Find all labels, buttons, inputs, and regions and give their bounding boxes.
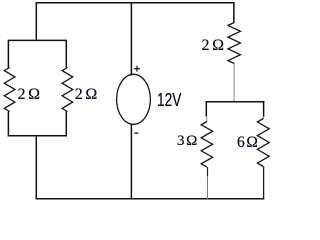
plus polarity mark [134,66,140,72]
wire 6ohm lower lead [263,167,265,200]
wire 3ohm upper thin lead [206,116,208,122]
wire second branch upper lead [65,40,67,68]
wire 3ohm branch upper lead [205,101,207,117]
value label 12V (source) [157,90,181,111]
resistor 2ohm left [4,68,15,112]
wire source branch lower [130,124,132,199]
value label 2 ohm (upper right resistor) [202,37,224,55]
wire 3ohm lower thin lead [207,176,209,199]
wire top of lower-right parallel pair [206,101,264,103]
wire bottom rail [36,198,265,200]
value label 2 ohm (left resistor) [18,86,40,104]
wire left drop to bottom rail [35,136,37,199]
wire left branch lower lead [7,112,9,137]
wire right drop from top rail [233,3,235,23]
resistor 3ohm [201,122,212,168]
wire 6ohm branch upper lead [263,101,265,117]
wire source branch upper [130,3,132,76]
wire left drop from top rail [35,3,37,41]
minus polarity mark [134,132,138,134]
wire top of left parallel pair [8,39,66,41]
value label 6 ohm [237,134,258,152]
wire bottom of left parallel pair [8,135,67,137]
resistor 2ohm second (right of pair) [62,68,73,112]
resistor 2ohm upper right [228,23,240,64]
wire lead from 2ohm down to lower pair (thin grey) [233,64,235,102]
wire left branch upper lead [7,40,9,68]
voltage source V1 ellipse [117,74,151,124]
value label 3 ohm [177,133,197,150]
wire 3ohm lower lead dark part [207,167,209,177]
wire top rail [36,2,235,4]
wire second branch lower lead [65,112,67,137]
value label 2 ohm (second resistor) [75,86,97,104]
resistor 6ohm [257,119,269,167]
wire 6ohm upper thin lead [262,116,264,119]
